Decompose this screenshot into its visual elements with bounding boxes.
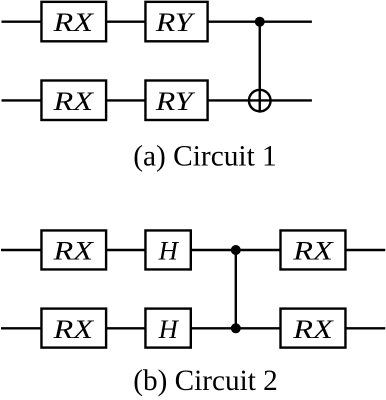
gate RX q1 left circuit2 — [41, 309, 106, 348]
svg-text:RX: RX — [52, 87, 94, 116]
gate H q1 circuit2 — [145, 309, 190, 348]
gate RX q0 left circuit2 — [41, 230, 106, 269]
svg-text:RX: RX — [292, 315, 334, 344]
gate RX q0 right circuit2 — [281, 230, 346, 269]
wire CZ vertical circuit2 — [235, 250, 237, 328]
gate RY q0 circuit1 — [145, 2, 207, 41]
wire q1 circuit1 — [2, 99, 312, 101]
wire q0 circuit1 — [2, 21, 312, 23]
svg-text:(b) Circuit 2: (b) Circuit 2 — [133, 364, 278, 397]
gate RX q1 right circuit2 — [281, 309, 346, 348]
caption (a) Circuit 1 — [133, 140, 277, 173]
svg-text:RX: RX — [52, 237, 94, 266]
wire q0 circuit2 — [1, 249, 385, 251]
svg-text:RX: RX — [52, 8, 94, 37]
svg-text:H: H — [158, 315, 179, 344]
control dot q1 circuit2 — [231, 323, 241, 333]
svg-text:RX: RX — [292, 237, 334, 266]
gate RX q0 circuit1 — [41, 2, 106, 41]
wire q1 circuit2 — [1, 327, 385, 329]
gate RX q1 circuit1 — [41, 81, 106, 121]
svg-text:H: H — [158, 237, 179, 266]
svg-text:RX: RX — [52, 315, 94, 344]
svg-text:(a) Circuit 1: (a) Circuit 1 — [133, 140, 277, 173]
gate RY q1 circuit1 — [145, 81, 207, 121]
svg-text:RY: RY — [155, 87, 196, 116]
control dot q0 circuit1 — [255, 17, 265, 27]
wire CNOT vertical circuit1 — [259, 22, 261, 113]
gate H q0 circuit2 — [145, 230, 190, 269]
caption (b) Circuit 2 — [133, 364, 278, 397]
CNOT target q1 circuit1 — [249, 90, 271, 112]
control dot q0 circuit2 — [231, 245, 241, 255]
svg-text:RY: RY — [155, 8, 196, 37]
